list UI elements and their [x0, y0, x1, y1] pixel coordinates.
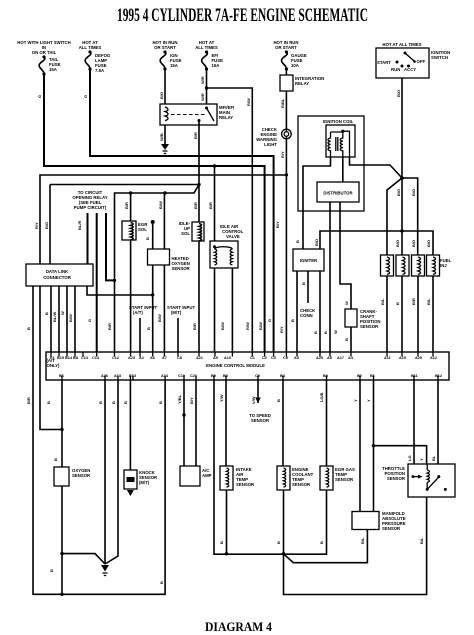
- svg-text:B: B: [219, 541, 224, 544]
- svg-text:B/L: B/L: [426, 298, 431, 305]
- svg-text:B/O: B/O: [396, 189, 401, 196]
- svg-text:SENSOR: SENSOR: [72, 473, 91, 478]
- svg-text:CONN: CONN: [300, 313, 313, 318]
- svg-text:C21: C21: [190, 374, 197, 378]
- svg-text:(A/T): (A/T): [133, 310, 143, 315]
- svg-text:DISTRIBUTOR: DISTRIBUTOR: [323, 191, 353, 196]
- svg-text:BL: BL: [431, 455, 436, 461]
- svg-text:B: B: [395, 302, 400, 305]
- svg-text:B/L: B/L: [419, 537, 424, 544]
- svg-text:B2: B2: [357, 374, 362, 378]
- svg-text:B6: B6: [59, 374, 64, 378]
- svg-text:B/W: B/W: [157, 314, 162, 322]
- svg-text:ONLY): ONLY): [47, 363, 61, 368]
- svg-text:B/R: B/R: [26, 397, 31, 404]
- svg-text:B1: B1: [370, 374, 375, 378]
- svg-text:SOL: SOL: [138, 227, 147, 232]
- svg-text:A26: A26: [101, 374, 108, 378]
- svg-text:C5: C5: [283, 356, 288, 360]
- svg-text:B: B: [313, 331, 318, 334]
- svg-text:B: B: [145, 237, 150, 240]
- svg-text:R/Y: R/Y: [279, 326, 284, 333]
- svg-text:PUMP CIRCUIT): PUMP CIRCUIT): [74, 205, 107, 210]
- svg-text:OR START: OR START: [275, 45, 297, 50]
- svg-text:15A: 15A: [49, 67, 57, 72]
- svg-text:B/W: B/W: [68, 314, 73, 322]
- svg-text:SENSOR: SENSOR: [387, 476, 406, 481]
- svg-text:V/W: V/W: [251, 396, 256, 404]
- svg-text:G: G: [87, 319, 92, 322]
- svg-text:DIAGRAM 4: DIAGRAM 4: [205, 619, 272, 634]
- svg-text:R/Y: R/Y: [34, 222, 39, 229]
- svg-text:B: B: [159, 581, 164, 584]
- svg-text:A17: A17: [337, 356, 344, 360]
- svg-text:IGNITION COIL: IGNITION COIL: [323, 119, 354, 124]
- svg-text:B: B: [46, 401, 51, 404]
- svg-text:B/W: B/W: [158, 201, 163, 209]
- svg-text:ON OR TAIL: ON OR TAIL: [32, 50, 57, 55]
- svg-text:BL/W: BL/W: [52, 312, 57, 322]
- svg-text:A14: A14: [161, 374, 169, 378]
- svg-text:C12: C12: [112, 356, 119, 360]
- svg-text:B/R: B/R: [411, 298, 416, 305]
- svg-text:C1: C1: [250, 356, 255, 360]
- svg-text:ENGINE CONTROL MODULE: ENGINE CONTROL MODULE: [206, 363, 265, 368]
- svg-text:B: B: [146, 327, 151, 330]
- svg-text:B: B: [301, 282, 306, 285]
- svg-text:C10: C10: [178, 374, 185, 378]
- svg-text:B/O: B/O: [396, 90, 401, 97]
- svg-text:B/L: B/L: [360, 537, 365, 544]
- svg-text:B/R: B/R: [124, 202, 129, 209]
- svg-text:A2: A2: [139, 356, 144, 360]
- svg-text:B: B: [290, 319, 295, 322]
- svg-text:RELAY: RELAY: [295, 81, 309, 86]
- svg-text:B8: B8: [73, 356, 78, 360]
- svg-text:Y/W: Y/W: [219, 394, 224, 402]
- svg-text:B: B: [295, 240, 300, 243]
- svg-text:B/O: B/O: [159, 92, 164, 99]
- svg-text:OFF: OFF: [417, 59, 426, 64]
- svg-text:(M/T): (M/T): [171, 310, 182, 315]
- svg-text:Y/BL: Y/BL: [177, 394, 182, 404]
- svg-text:B: B: [53, 458, 58, 461]
- svg-text:B: B: [44, 312, 49, 315]
- svg-text:A7: A7: [162, 356, 167, 360]
- svg-text:A25: A25: [415, 356, 422, 360]
- svg-text:Y: Y: [419, 458, 424, 461]
- svg-text:LIGHT: LIGHT: [264, 142, 277, 147]
- svg-text:G: G: [83, 95, 88, 98]
- svg-text:W: W: [60, 311, 65, 315]
- svg-text:A9: A9: [213, 356, 218, 360]
- svg-text:B/W: B/W: [258, 322, 263, 330]
- svg-text:A21: A21: [196, 356, 203, 360]
- svg-text:SOL: SOL: [181, 231, 190, 236]
- svg-text:B8: B8: [323, 374, 328, 378]
- svg-text:B/R: B/R: [193, 132, 198, 139]
- svg-text:15A: 15A: [170, 63, 178, 68]
- svg-text:B/R: B/R: [193, 202, 198, 209]
- svg-text:B: B: [276, 541, 281, 544]
- svg-text:C9: C9: [255, 374, 260, 378]
- svg-text:LG/B: LG/B: [319, 392, 324, 402]
- svg-text:15A: 15A: [212, 63, 220, 68]
- svg-text:B: B: [123, 401, 128, 404]
- svg-text:B/R: B/R: [192, 323, 197, 330]
- svg-text:C13: C13: [81, 356, 88, 360]
- svg-text:W: W: [344, 301, 349, 305]
- svg-text:B/G: B/G: [44, 222, 49, 229]
- svg-text:B: B: [319, 541, 324, 544]
- svg-text:B/O: B/O: [411, 240, 416, 247]
- svg-text:W/R: W/R: [200, 76, 205, 84]
- svg-text:R/BL: R/BL: [280, 98, 285, 108]
- svg-text:G: G: [267, 319, 272, 322]
- svg-text:SENSOR: SENSOR: [360, 324, 379, 329]
- svg-text:ALL TIMES: ALL TIMES: [79, 45, 102, 50]
- svg-text:RELAY: RELAY: [219, 115, 233, 120]
- svg-text:R/W: R/W: [246, 98, 251, 106]
- svg-text:A6: A6: [150, 356, 155, 360]
- svg-text:C2: C2: [262, 356, 267, 360]
- svg-text:B13: B13: [129, 374, 136, 378]
- svg-text:B/O: B/O: [411, 189, 416, 196]
- svg-text:B14: B14: [65, 356, 73, 360]
- svg-text:B15: B15: [57, 356, 64, 360]
- svg-text:SENSOR: SENSOR: [382, 526, 401, 531]
- svg-text:7.5A: 7.5A: [95, 68, 104, 73]
- svg-text:ALL TIMES: ALL TIMES: [195, 45, 218, 50]
- svg-text:B/Y: B/Y: [275, 221, 280, 228]
- svg-text:W: W: [333, 330, 338, 334]
- svg-text:A13: A13: [114, 374, 121, 378]
- svg-text:START: START: [377, 60, 391, 65]
- svg-text:SENSOR: SENSOR: [172, 266, 191, 271]
- svg-text:B/O: B/O: [395, 240, 400, 247]
- svg-text:A5: A5: [327, 356, 332, 360]
- svg-text:SENSOR: SENSOR: [335, 477, 354, 482]
- svg-text:HOT AT ALL TIMES: HOT AT ALL TIMES: [382, 42, 421, 47]
- svg-text:AMP: AMP: [202, 473, 212, 478]
- svg-text:A10: A10: [224, 356, 231, 360]
- svg-text:1995 4 CYLINDER 7A-FE ENGINE S: 1995 4 CYLINDER 7A-FE ENGINE SCHEMATIC: [117, 5, 368, 26]
- svg-text:SENSOR: SENSOR: [251, 418, 270, 423]
- svg-text:(M/T): (M/T): [139, 480, 150, 485]
- svg-text:B: B: [158, 401, 163, 404]
- svg-text:B/Y: B/Y: [189, 397, 194, 404]
- svg-text:VALVE: VALVE: [226, 234, 240, 239]
- svg-text:IGNITER: IGNITER: [300, 258, 318, 263]
- svg-text:RUN: RUN: [391, 67, 400, 72]
- svg-text:C14: C14: [92, 356, 100, 360]
- svg-text:B/W: B/W: [220, 322, 225, 330]
- svg-text:A15: A15: [399, 356, 406, 360]
- svg-text:C8: C8: [177, 356, 182, 360]
- svg-text:A3: A3: [294, 356, 299, 360]
- svg-text:LG: LG: [407, 455, 412, 461]
- svg-text:B: B: [111, 401, 116, 404]
- svg-text:C3: C3: [271, 356, 276, 360]
- svg-text:G: G: [37, 95, 42, 98]
- svg-text:E1: E1: [50, 356, 55, 360]
- svg-text:B9: B9: [211, 374, 216, 378]
- svg-text:B12: B12: [435, 374, 442, 378]
- svg-text:B: B: [26, 327, 31, 330]
- svg-text:B/R: B/R: [208, 202, 213, 209]
- svg-text:A11: A11: [384, 356, 391, 360]
- svg-text:W/R: W/R: [200, 93, 205, 101]
- svg-text:B/L: B/L: [380, 298, 385, 305]
- svg-text:SWITCH: SWITCH: [431, 55, 448, 60]
- svg-text:A23: A23: [128, 356, 135, 360]
- svg-text:INJ: INJ: [440, 263, 447, 268]
- svg-text:Y: Y: [366, 399, 371, 402]
- svg-text:DATA LINK: DATA LINK: [46, 269, 69, 274]
- svg-text:B: B: [98, 401, 103, 404]
- svg-text:CONNECTOR: CONNECTOR: [43, 275, 72, 280]
- svg-text:B: B: [323, 331, 328, 334]
- svg-text:A12: A12: [430, 356, 437, 360]
- svg-text:SENSOR: SENSOR: [236, 482, 255, 487]
- svg-text:R/W: R/W: [245, 322, 250, 330]
- svg-text:B: B: [276, 399, 281, 402]
- svg-text:10A: 10A: [291, 63, 299, 68]
- svg-text:R/Y: R/Y: [280, 151, 285, 158]
- svg-text:B: B: [49, 569, 54, 572]
- svg-text:B3: B3: [223, 374, 228, 378]
- svg-text:B/O: B/O: [314, 239, 319, 246]
- svg-text:SENSOR: SENSOR: [292, 482, 311, 487]
- svg-text:Y: Y: [353, 399, 358, 402]
- svg-text:B/O: B/O: [426, 240, 431, 247]
- svg-text:B11: B11: [411, 374, 418, 378]
- svg-text:OR START: OR START: [154, 45, 176, 50]
- svg-text:B: B: [344, 338, 349, 341]
- svg-text:B/R: B/R: [107, 323, 112, 330]
- svg-text:W/B: W/B: [159, 133, 164, 141]
- svg-text:BL/R: BL/R: [77, 221, 82, 230]
- svg-text:ACCY: ACCY: [404, 67, 416, 72]
- svg-text:A25: A25: [316, 356, 323, 360]
